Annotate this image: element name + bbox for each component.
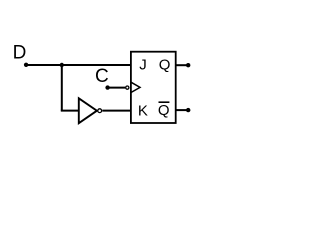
wire C to clock input [108, 87, 126, 89]
junction dot on D wire [60, 63, 64, 67]
svg-text:Q: Q [159, 56, 171, 73]
svg-text:D: D [13, 43, 27, 64]
wire Q-bar output [176, 109, 188, 111]
svg-text:K: K [138, 103, 148, 120]
node D terminal dot [24, 63, 28, 67]
inverter U1 output bubble [98, 109, 102, 113]
wire junction down to inverter row [61, 65, 63, 111]
svg-text:C: C [95, 66, 109, 87]
wire D to J input [26, 64, 131, 66]
wire Q output [176, 64, 188, 66]
inverter U1 triangle [79, 98, 97, 123]
overbar on Q-bar [159, 101, 170, 103]
JK flip-flop U2 body [131, 52, 176, 123]
node Q terminal dot [186, 63, 190, 67]
wire to inverter input [61, 110, 79, 112]
node Q-bar terminal dot [186, 108, 190, 112]
clock inversion bubble [126, 86, 129, 89]
node C terminal dot [105, 85, 109, 89]
clock edge chevron [131, 82, 140, 92]
wire inverter to K input [102, 110, 130, 112]
svg-text:J: J [139, 56, 147, 73]
svg-text:Q: Q [158, 102, 170, 119]
